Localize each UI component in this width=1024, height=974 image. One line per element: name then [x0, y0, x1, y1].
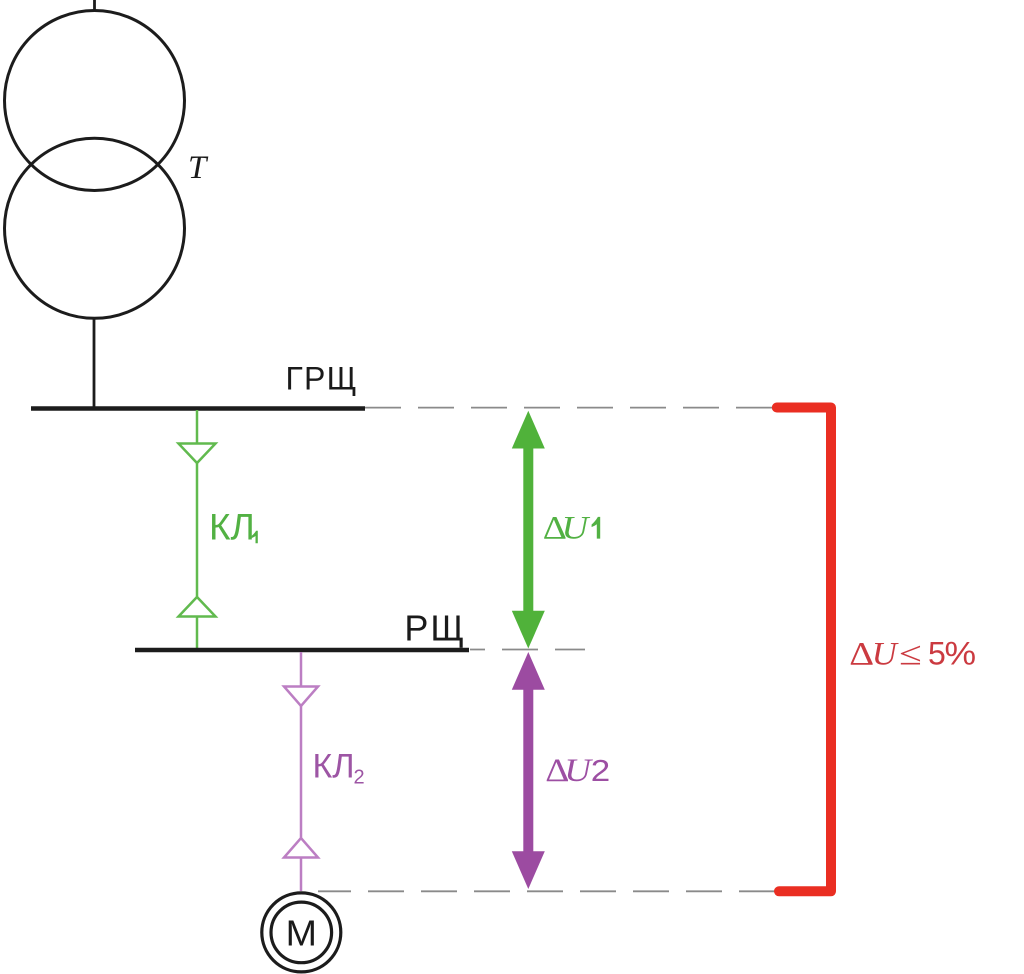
wire KL2 upper segment	[300, 652, 303, 686]
dashed node line at RShch level	[470, 649, 585, 651]
svg-text:T: T	[188, 150, 209, 186]
svg-text:Δ: Δ	[849, 635, 874, 672]
wire KL1 middle segment	[196, 463, 199, 597]
bus GRShch (main switchboard busbar)	[31, 406, 365, 411]
svg-text:КЛ: КЛ	[313, 748, 355, 786]
cable КЛ2 arrowhead (up)	[284, 838, 318, 858]
motor M outer circle	[262, 893, 341, 972]
motor M inner circle	[271, 902, 332, 963]
bus RShch (distribution switchboard busbar)	[135, 648, 469, 653]
voltage-drop arrow ΔU2 (purple double arrow)	[512, 652, 545, 889]
cable КЛ1 arrowhead (down)	[179, 444, 216, 464]
svg-text:ГРЩ: ГРЩ	[286, 361, 358, 397]
svg-text:U: U	[872, 636, 900, 672]
red bracket ΔU ≤ 5% limit	[777, 408, 831, 892]
wire KL2 lower segment	[300, 858, 303, 891]
svg-text:U: U	[562, 509, 592, 546]
cable КЛ1 arrowhead (up)	[179, 597, 216, 617]
svg-text:2: 2	[591, 754, 610, 789]
svg-text:М: М	[286, 913, 317, 953]
dashed node line at GRShch level	[365, 407, 773, 409]
transformer T secondary winding	[5, 138, 185, 318]
svg-text:КЛ: КЛ	[209, 507, 255, 548]
cable КЛ2 arrowhead (down)	[284, 687, 318, 707]
svg-text:U: U	[564, 752, 594, 789]
voltage-drop arrow ΔU1 (green double arrow)	[512, 411, 545, 649]
transformer T primary winding	[5, 11, 185, 191]
dashed node line at motor level	[318, 890, 775, 892]
svg-text:%: %	[945, 636, 977, 672]
wire KL1 upper segment	[196, 410, 199, 443]
wire KL2 middle segment	[300, 706, 303, 838]
svg-text:5: 5	[928, 636, 946, 672]
svg-text:РЩ: РЩ	[404, 608, 466, 649]
wire KL1 lower segment	[196, 617, 199, 649]
wire from supply to transformer T	[93, 0, 96, 12]
svg-text:2: 2	[354, 767, 365, 789]
wire transformer to GRShch bus	[93, 318, 96, 408]
svg-text:≤: ≤	[899, 636, 922, 672]
